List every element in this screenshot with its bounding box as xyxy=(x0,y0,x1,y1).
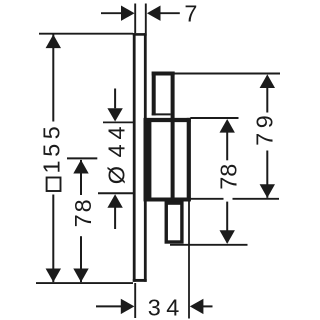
square symbol of 155 xyxy=(47,178,61,192)
svg-text:5: 5 xyxy=(39,126,65,139)
dim 155 top extension xyxy=(39,33,133,35)
top knob top edge xyxy=(152,72,175,76)
arrow 79 top up xyxy=(260,74,275,88)
arrow 79 bottom down xyxy=(260,184,275,198)
dim 78 right bottom extension xyxy=(170,244,248,246)
svg-text:3: 3 xyxy=(148,294,161,320)
arrow 78R top up xyxy=(220,119,235,133)
dim O44 lower stub xyxy=(114,207,116,229)
svg-text:7: 7 xyxy=(184,1,197,27)
dim O44 bottom extension xyxy=(98,192,134,194)
plate right edge xyxy=(144,33,147,282)
top knob left edge xyxy=(152,72,156,116)
extension 34 left xyxy=(134,283,136,318)
arrow 34 left right-pointing xyxy=(121,299,135,314)
sleeve front dark band xyxy=(144,118,152,201)
svg-text:7: 7 xyxy=(216,177,242,190)
svg-text:4: 4 xyxy=(103,144,129,157)
dim 79 top extension xyxy=(175,73,281,75)
arrow 7 right left-pointing xyxy=(147,6,161,21)
disc front face xyxy=(187,118,191,201)
dim 155 line upper xyxy=(52,35,54,122)
body bottom edge xyxy=(144,198,191,202)
svg-text:1: 1 xyxy=(39,160,65,173)
bottom knob xyxy=(166,203,182,242)
dim 78 right top extension xyxy=(190,117,238,119)
dim 78 left line lower xyxy=(80,236,82,282)
dim O44 upper stub xyxy=(114,89,116,109)
svg-text:5: 5 xyxy=(39,144,65,157)
plate bottom edge xyxy=(133,279,147,282)
dim 79 bottom extension seg a xyxy=(190,198,223,200)
dim 34 right leader xyxy=(202,305,213,307)
dim 79 bottom extension seg b xyxy=(233,198,280,200)
dim 78 left line upper xyxy=(80,160,82,195)
svg-text:7: 7 xyxy=(70,214,96,227)
svg-text:Ø: Ø xyxy=(103,166,129,184)
dim 78 right line lower xyxy=(226,202,228,243)
dim 155 line lower xyxy=(52,195,54,283)
arrow 78L top up xyxy=(73,160,88,174)
svg-text:9: 9 xyxy=(251,115,277,128)
arrow 7 left right-pointing xyxy=(121,6,135,21)
plate left edge xyxy=(133,33,136,282)
arrow 78L bottom down xyxy=(73,269,88,283)
arrow 155 bottom down xyxy=(46,269,61,283)
svg-text:8: 8 xyxy=(70,199,96,212)
arrow 155 top up xyxy=(46,35,61,49)
extension 34 right xyxy=(188,198,190,319)
svg-text:8: 8 xyxy=(216,164,242,177)
dim 155/78 bottom extension xyxy=(36,282,133,284)
top knob right edge / sleeve front face xyxy=(171,72,175,201)
extension line 7 right xyxy=(145,4,147,34)
plate top edge xyxy=(133,33,147,36)
arrow O44 upper down xyxy=(107,108,122,121)
dim 79 line upper xyxy=(266,87,268,113)
dim 34 left leader xyxy=(96,305,122,307)
svg-text:7: 7 xyxy=(251,133,277,146)
dim 7 right leader xyxy=(158,12,180,14)
dim 7 left leader xyxy=(101,12,122,14)
disc top edge band xyxy=(144,118,191,122)
top knob bottom edge xyxy=(152,113,171,115)
arrow 34 right left-pointing xyxy=(190,299,204,314)
dim 78 right line upper xyxy=(226,131,228,160)
arrow 78R bottom down xyxy=(220,230,235,244)
svg-text:4: 4 xyxy=(103,126,129,139)
extension line 7 left xyxy=(134,4,136,34)
dim O44 top extension xyxy=(103,121,133,123)
dim 79 line lower xyxy=(266,151,268,198)
dim 78 left tick xyxy=(67,157,97,159)
arrow O44 lower up xyxy=(107,194,122,208)
svg-text:4: 4 xyxy=(166,294,179,320)
